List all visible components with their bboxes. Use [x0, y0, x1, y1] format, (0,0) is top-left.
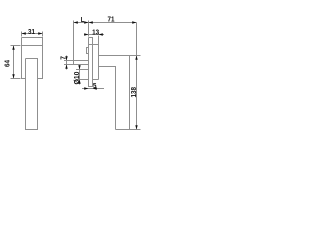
svg-text:13: 13 — [92, 27, 99, 36]
svg-text:138: 138 — [129, 87, 138, 98]
svg-text:Ø10: Ø10 — [72, 72, 81, 85]
svg-text:31: 31 — [28, 27, 35, 36]
svg-text:5: 5 — [93, 81, 97, 90]
svg-text:7: 7 — [58, 56, 67, 60]
svg-text:71: 71 — [108, 14, 115, 23]
svg-text:L: L — [81, 15, 85, 24]
svg-text:64: 64 — [2, 59, 11, 67]
